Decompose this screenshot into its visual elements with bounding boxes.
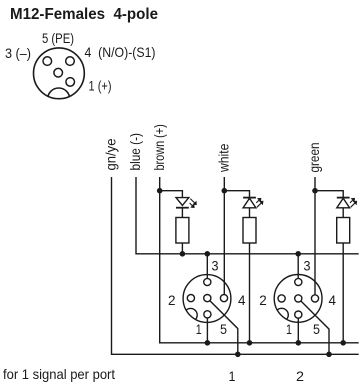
- wire pin3 drop port2: [297, 254, 299, 279]
- svg-text:4 (N/O)-(S1): 4 (N/O)-(S1): [85, 44, 156, 60]
- wire blue vertical + minus bus: [136, 177, 359, 254]
- resistor R1: [176, 218, 189, 244]
- junction dot port1 pin1 / plus bus: [205, 340, 211, 346]
- LED D1 light arrows: [190, 199, 197, 208]
- svg-text:1 (+): 1 (+): [89, 78, 112, 94]
- svg-text:5 (PE): 5 (PE): [42, 30, 74, 46]
- wire pin1 drop port2: [297, 318, 299, 343]
- wire down to plus bus (crosses minus bus, no dot): [342, 243, 344, 343]
- svg-text:for 1 signal per port: for 1 signal per port: [3, 366, 115, 382]
- resistor R2: [243, 218, 256, 244]
- svg-text:2: 2: [296, 368, 304, 384]
- junction dot green/branch3: [312, 188, 318, 194]
- LED D2 light arrows: [256, 199, 263, 208]
- port2 pin 3 (top): [295, 278, 302, 285]
- svg-text:3 (–): 3 (–): [5, 45, 31, 61]
- svg-text:5: 5: [220, 321, 227, 337]
- junction dot port2 switch / signal line: [326, 352, 332, 358]
- M12 port 1 connector: [183, 254, 238, 354]
- wire: [181, 208, 183, 218]
- port1 body circle: [183, 275, 231, 323]
- wire pin3 drop port1: [206, 254, 208, 279]
- wire branch2 horizontal: [224, 191, 249, 198]
- port1 keyway notch: [184, 308, 197, 321]
- svg-text:white: white: [215, 143, 231, 172]
- svg-text:blue (-): blue (-): [127, 133, 143, 171]
- wire: [342, 208, 344, 218]
- port2 pin 2 (left): [278, 295, 285, 302]
- keyway notch (bottom): [48, 88, 70, 110]
- switch S1 contact port1: [210, 301, 238, 355]
- wire branch3 horizontal: [315, 191, 343, 198]
- LED D1 (cathode down): [176, 198, 189, 206]
- wire green vertical: [314, 177, 316, 295]
- wire down to plus bus (crosses minus bus, no dot): [249, 243, 251, 343]
- svg-text:3: 3: [212, 258, 219, 274]
- junction dot white/branch2: [222, 188, 228, 194]
- junction dot port2 pin1 / plus bus: [296, 340, 302, 346]
- pin 5 contact (middle): [54, 68, 63, 77]
- svg-text:1: 1: [286, 321, 292, 337]
- port1 pin 1 (bottom): [204, 311, 211, 318]
- pin 4 contact (upper-right): [66, 57, 75, 66]
- switch S1 contact port2: [301, 301, 329, 354]
- port1 pin 2 (left): [187, 295, 194, 302]
- port2 keyway notch: [275, 308, 288, 321]
- svg-text:1: 1: [196, 321, 202, 337]
- svg-text:3: 3: [304, 258, 311, 274]
- LED D3 light arrows: [350, 199, 357, 208]
- port2 body circle: [274, 275, 322, 323]
- svg-text:1: 1: [229, 368, 236, 384]
- wire brown vertical + plus bus: [160, 177, 359, 343]
- svg-text:4: 4: [329, 292, 337, 308]
- M12 female connector face (top): [34, 48, 85, 99]
- LED D2 (cathode up): [243, 197, 256, 199]
- wire white vertical: [223, 177, 225, 295]
- svg-text:4: 4: [238, 292, 246, 308]
- resistor R3: [337, 218, 350, 244]
- wire pin1 drop port1: [206, 318, 208, 343]
- svg-text:M12-Females 4-pole: M12-Females 4-pole: [10, 6, 158, 23]
- svg-text:2: 2: [259, 292, 267, 308]
- svg-text:gn/ye: gn/ye: [103, 138, 119, 170]
- M12 port 2 connector: [274, 254, 329, 354]
- junction dot branch3/plus bus: [340, 340, 346, 346]
- pin 1 contact (lower-right): [66, 78, 75, 87]
- junction dot brown/branch1: [157, 188, 163, 194]
- svg-text:brown (+): brown (+): [151, 124, 167, 170]
- port2 pin 1 (bottom): [295, 311, 302, 318]
- wire gn/ye vertical: [112, 177, 359, 354]
- port1 pin center: [204, 295, 211, 302]
- LED branch 1 (power indicator off brown): [160, 191, 189, 254]
- wire: [249, 208, 251, 218]
- junction dot port1 switch / signal line: [235, 352, 241, 358]
- port2 pin 4 (right): [311, 295, 318, 302]
- junction dot branch2/plus bus: [247, 340, 253, 346]
- junction dot branch1/minus bus: [180, 251, 186, 257]
- wire: [181, 243, 183, 254]
- LED branch 2 (signal port 1 off white): [224, 191, 256, 343]
- LED branch 3 (signal port 2 off green): [315, 191, 350, 343]
- junction dot port2 pin3 / minus bus: [295, 251, 301, 257]
- svg-text:green: green: [306, 143, 322, 173]
- port1 pin 3 (top): [204, 278, 211, 285]
- port2 pin center: [295, 295, 302, 302]
- LED D3 (cathode up): [337, 197, 350, 199]
- pin 3 contact (upper-left): [43, 57, 52, 66]
- port1 pin 4 (right): [220, 295, 227, 302]
- svg-text:2: 2: [168, 292, 176, 308]
- wire branch1 horizontal: [160, 191, 183, 198]
- junction dot port1 pin3 / minus bus: [205, 251, 211, 257]
- svg-text:5: 5: [313, 321, 320, 337]
